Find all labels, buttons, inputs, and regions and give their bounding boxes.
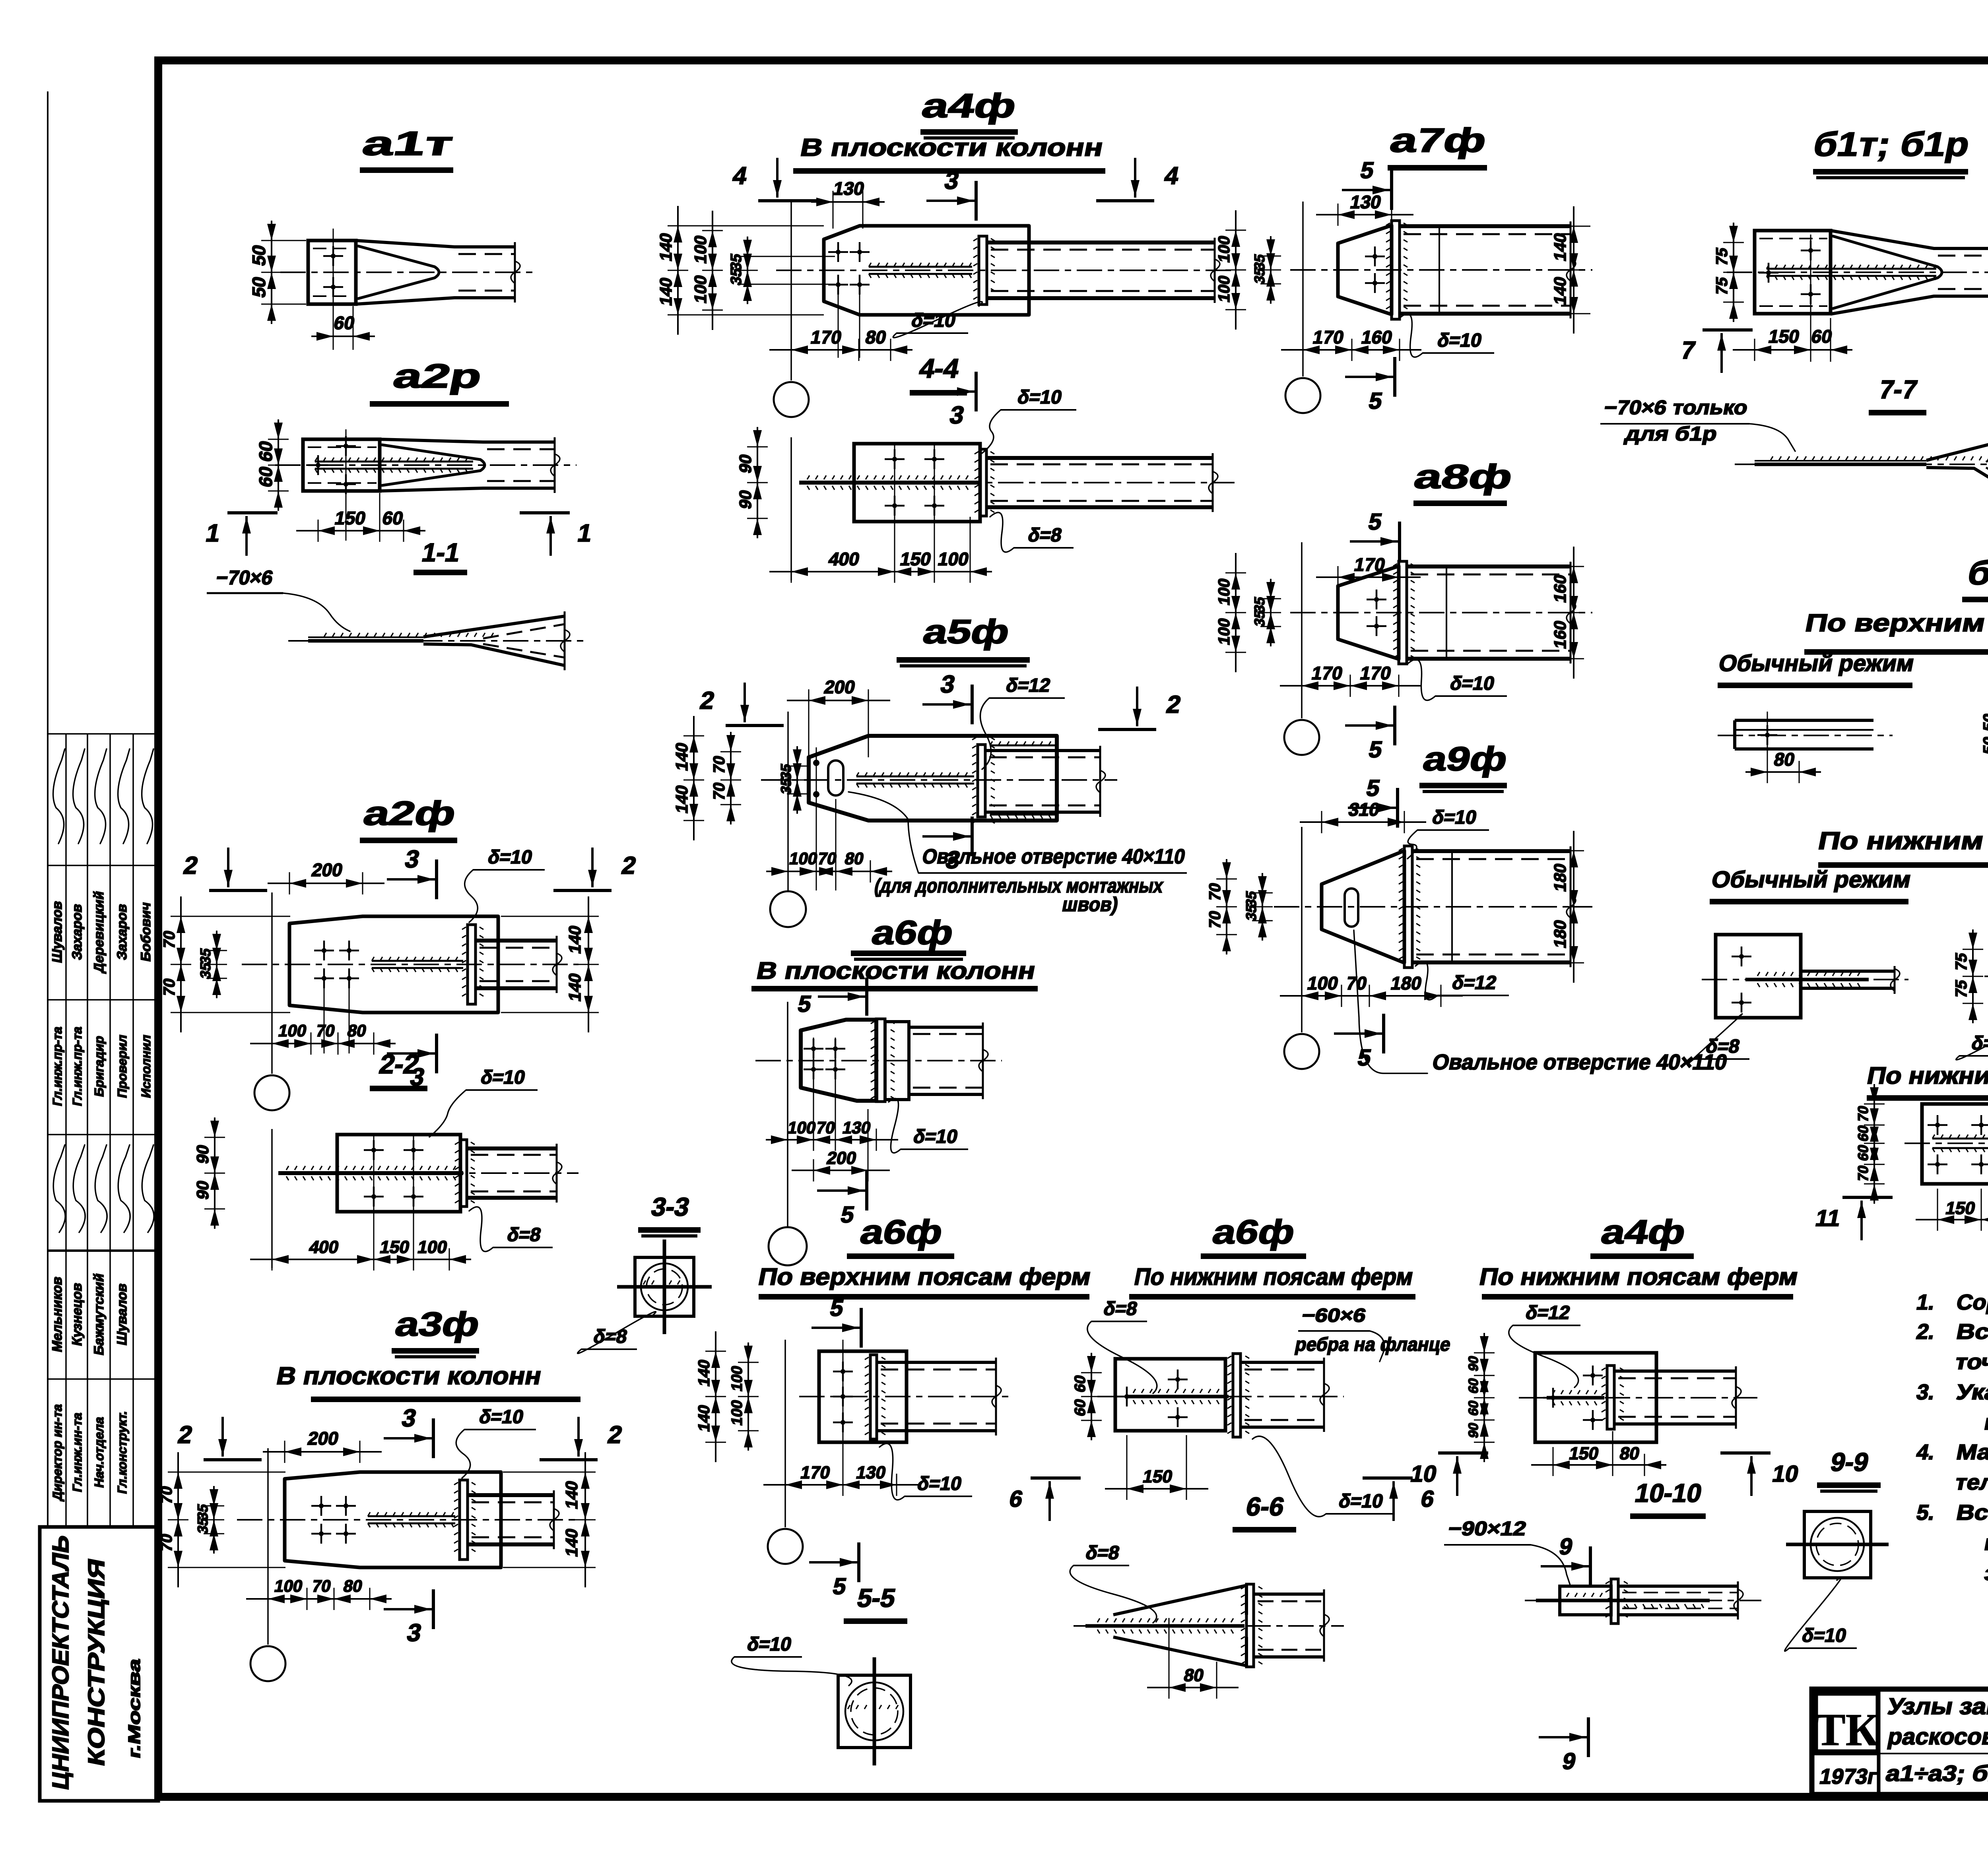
- svg-text:δ=10: δ=10: [912, 1126, 960, 1147]
- svg-text:Шувалов: Шувалов: [115, 1282, 130, 1346]
- svg-text:Бригадир: Бригадир: [92, 1034, 106, 1098]
- svg-text:точности М20.: точности М20.: [1953, 1350, 1988, 1373]
- svg-text:140: 140: [562, 1527, 581, 1558]
- svg-text:для б1р: для б1р: [1623, 422, 1719, 444]
- sidebar organisation box CNIIPROEKTSTAL: [40, 1527, 158, 1801]
- header a3f po nizhnim poyasam ferm: [1865, 1062, 1988, 1098]
- svg-text:100: 100: [1215, 577, 1233, 607]
- detail b1t b1p drawing: [1679, 223, 1988, 373]
- svg-text:−70×6 только: −70×6 только: [1602, 396, 1750, 418]
- svg-text:80: 80: [1182, 1666, 1206, 1685]
- svg-text:90: 90: [736, 452, 755, 475]
- svg-text:(для дополнительных монтажны: (для дополнительных монтажных: [873, 874, 1165, 896]
- svg-text:70: 70: [315, 1021, 337, 1040]
- svg-text:400: 400: [827, 549, 862, 569]
- subheader obychny rezhim 2: [1709, 867, 1913, 902]
- svg-text:δ=10: δ=10: [1337, 1490, 1385, 1511]
- section 10-10 label: [1630, 1479, 1706, 1516]
- svg-text:70: 70: [160, 929, 178, 950]
- detail a7f label: [1387, 122, 1489, 168]
- svg-text:а1т: а1т: [359, 125, 456, 163]
- detail a5f drawing: [672, 671, 1183, 927]
- note -70x6 tolko dlya b1p: [1600, 396, 1795, 451]
- svg-text:10: 10: [1408, 1461, 1439, 1486]
- detail a6f verkhnim drawing: [695, 1295, 1014, 1599]
- detail a6f mid drawing: [755, 978, 1002, 1265]
- svg-text:70: 70: [710, 754, 728, 775]
- svg-text:70: 70: [816, 849, 839, 868]
- section 9-9 label: [1817, 1448, 1881, 1491]
- svg-text:180: 180: [1551, 862, 1569, 893]
- section 2-2 drawing: [193, 1067, 579, 1271]
- detail a7f drawing: [1215, 157, 1592, 413]
- svg-text:δ=10: δ=10: [486, 846, 534, 867]
- section 5-5 label: [844, 1584, 907, 1621]
- section 4-4 label: [910, 353, 967, 393]
- svg-text:а2ф: а2ф: [360, 795, 459, 832]
- detail a1t label: [359, 125, 456, 170]
- detail a1t drawing: [248, 221, 537, 350]
- header a6f po nizhnim poyasam ferm: [1129, 1263, 1416, 1297]
- svg-text:11: 11: [1813, 1205, 1843, 1231]
- svg-text:Гл.инж.пр-та: Гл.инж.пр-та: [50, 1025, 64, 1107]
- svg-text:75: 75: [1712, 246, 1731, 267]
- svg-text:Указания по назначению тип: Указания по назначению типов электродов: [1955, 1380, 1988, 1404]
- detail a2f drawing: [160, 846, 639, 1110]
- svg-text:90: 90: [193, 1143, 212, 1165]
- svg-text:100: 100: [728, 1399, 745, 1427]
- plate note -70x6: [207, 566, 350, 631]
- svg-text:140: 140: [672, 741, 691, 772]
- notes Primechaniya: [1914, 1249, 1988, 1585]
- section 4-4 drawing: [736, 386, 1235, 583]
- svg-text:150: 150: [1767, 326, 1802, 347]
- svg-text:1973г: 1973г: [1817, 1764, 1879, 1788]
- svg-text:100: 100: [416, 1238, 449, 1257]
- svg-text:а8ф: а8ф: [1411, 458, 1516, 496]
- svg-text:Захаров: Захаров: [70, 902, 85, 961]
- subtitle a3f v ploskosti kolonn: [274, 1362, 580, 1399]
- svg-text:75: 75: [1712, 275, 1731, 297]
- svg-text:150: 150: [378, 1238, 411, 1257]
- svg-text:2-2: 2-2: [377, 1049, 422, 1079]
- svg-text:а3ф: а3ф: [392, 1306, 483, 1343]
- svg-text:δ=10: δ=10: [479, 1067, 527, 1088]
- svg-text:Нач.отдела: Нач.отдела: [92, 1415, 106, 1489]
- svg-text:140: 140: [695, 1403, 713, 1434]
- svg-text:100: 100: [728, 1364, 745, 1393]
- svg-text:70: 70: [1206, 881, 1224, 902]
- svg-text:тельной записки.: тельной записки.: [1953, 1470, 1988, 1494]
- svg-text:50: 50: [248, 275, 269, 299]
- svg-text:г.Москва: г.Москва: [125, 1657, 144, 1760]
- svg-text:75: 75: [1952, 978, 1970, 999]
- header po nizhnim poyasam ferm: [1816, 827, 1988, 865]
- svg-text:δ=10: δ=10: [1436, 330, 1484, 351]
- svg-text:180: 180: [1551, 918, 1569, 950]
- section 7-7 drawing: [1735, 435, 1988, 494]
- svg-text:Все отверстия d=23 под бол: Все отверстия d=23 под болты нормальной: [1955, 1319, 1988, 1343]
- svg-text:5-5: 5-5: [855, 1584, 898, 1612]
- svg-text:60: 60: [1072, 1397, 1089, 1418]
- note oval hole a5f: [848, 792, 1187, 916]
- svg-text:Деревицкий: Деревицкий: [91, 890, 107, 974]
- svg-text:60: 60: [255, 439, 276, 463]
- svg-text:Проверил: Проверил: [115, 1033, 129, 1099]
- svg-text:130: 130: [832, 178, 866, 199]
- svg-text:δ=10: δ=10: [916, 1473, 964, 1494]
- svg-text:а1÷а3; б1, б2, в1 и б2 из эл: а1÷а3; б1, б2, в1 и б2 из электросварных…: [1884, 1761, 1988, 1785]
- svg-text:140: 140: [565, 972, 584, 1003]
- svg-text:δ=10: δ=10: [1431, 807, 1479, 828]
- svg-text:Гл.конструкт.: Гл.конструкт.: [115, 1409, 129, 1495]
- svg-text:Все расплющенные концы эле: Все расплющенные концы элементов связей: [1955, 1500, 1988, 1524]
- svg-text:80: 80: [1772, 749, 1796, 770]
- svg-text:200: 200: [306, 1428, 341, 1449]
- svg-text:130: 130: [1349, 192, 1383, 212]
- svg-text:140: 140: [565, 924, 584, 955]
- detail a6f verkhnim label: [847, 1213, 954, 1256]
- svg-text:75: 75: [1952, 951, 1970, 972]
- svg-text:δ=8: δ=8: [1084, 1542, 1121, 1563]
- detail a4f drawing: [656, 158, 1237, 429]
- section 3-3 drawing: [578, 1240, 712, 1354]
- svg-text:δ=12: δ=12: [1450, 972, 1499, 993]
- svg-text:7-7: 7-7: [1877, 375, 1920, 404]
- header a6f po verkhnim poyasam ferm: [756, 1263, 1093, 1297]
- svg-text:150: 150: [1944, 1199, 1977, 1218]
- svg-text:140: 140: [1551, 231, 1569, 263]
- detail a2r label: [370, 357, 509, 404]
- svg-text:Гл.инж.пр-та: Гл.инж.пр-та: [70, 1025, 84, 1107]
- svg-text:швов): швов): [1060, 893, 1120, 915]
- svg-text:10: 10: [1770, 1461, 1801, 1486]
- title block: [1812, 1689, 1988, 1794]
- svg-text:100: 100: [788, 849, 819, 868]
- svg-text:150: 150: [333, 508, 368, 528]
- svg-text:ЦНИИПРОЕКТСТАЛЬ: ЦНИИПРОЕКТСТАЛЬ: [48, 1532, 73, 1792]
- svg-text:−90×12: −90×12: [1446, 1517, 1528, 1539]
- svg-text:−60×6: −60×6: [1300, 1305, 1368, 1326]
- svg-text:δ=10: δ=10: [1016, 386, 1064, 407]
- svg-text:140: 140: [1551, 275, 1569, 306]
- svg-text:−70×6: −70×6: [214, 566, 275, 588]
- svg-text:170: 170: [1311, 327, 1346, 347]
- detail a2f label: [360, 795, 459, 840]
- svg-text:100: 100: [277, 1021, 308, 1040]
- svg-text:170: 170: [1353, 554, 1387, 575]
- svg-text:140: 140: [562, 1479, 581, 1511]
- svg-text:По нижним поясам ферм: По нижним поясам ферм: [1865, 1062, 1988, 1089]
- svg-text:80: 80: [342, 1577, 364, 1595]
- svg-text:160: 160: [1360, 327, 1394, 347]
- svg-text:1-1: 1-1: [419, 538, 462, 567]
- svg-text:200: 200: [825, 1148, 858, 1168]
- detail a8f drawing: [1215, 509, 1592, 762]
- svg-text:Исполнил: Исполнил: [139, 1033, 153, 1099]
- header po verkhnim poyasam ferm: [1803, 609, 1988, 652]
- svg-text:140: 140: [672, 784, 691, 815]
- subtitle a6f v ploskosti kolonn: [751, 957, 1038, 989]
- svg-text:Обычный режим: Обычный режим: [1709, 867, 1913, 892]
- svg-text:80: 80: [864, 327, 888, 347]
- detail a5f label: [897, 613, 1030, 666]
- svg-text:По нижним поясам ферм: По нижним поясам ферм: [1477, 1263, 1800, 1290]
- svg-text:140: 140: [656, 276, 675, 307]
- detail a3f kolonn label: [392, 1306, 483, 1357]
- svg-text:200: 200: [823, 677, 857, 697]
- svg-text:35: 35: [1251, 266, 1268, 285]
- section 6-6 label: [1233, 1492, 1296, 1530]
- svg-text:В плоскости колонн: В плоскости колонн: [754, 957, 1038, 984]
- svg-text:а4ф: а4ф: [919, 87, 1019, 125]
- svg-text:140: 140: [656, 231, 675, 263]
- svg-text:По нижним поясам ферм: По нижним поясам ферм: [1816, 827, 1988, 855]
- svg-text:ребра на фланце: ребра на фланце: [1293, 1334, 1452, 1355]
- svg-text:35: 35: [197, 961, 214, 980]
- svg-text:а7ф: а7ф: [1387, 122, 1489, 159]
- section 10-10 drawing: [1525, 1534, 1761, 1774]
- svg-text:В плоскости колонн: В плоскости колонн: [798, 134, 1105, 161]
- svg-text:6-6: 6-6: [1244, 1492, 1287, 1521]
- detail a9f label: [1419, 740, 1511, 791]
- subheader obychny rezhim 1: [1716, 650, 1916, 685]
- svg-text:60: 60: [1855, 1124, 1871, 1143]
- svg-text:160: 160: [1551, 573, 1569, 604]
- detail a3f nizhnim drawing: [1813, 1084, 1988, 1240]
- svg-text:По верхним поясам ферм: По верхним поясам ферм: [1803, 609, 1988, 637]
- detail a6f mid label: [851, 914, 966, 959]
- svg-text:100: 100: [936, 549, 971, 569]
- svg-text:400: 400: [307, 1238, 340, 1257]
- note -60x6 rebra na flantse: [1293, 1305, 1452, 1362]
- svg-text:70: 70: [311, 1577, 333, 1595]
- note oval hole a9f: [1354, 930, 1729, 1074]
- detail b1 upper heavy drawing: [1980, 692, 1988, 810]
- svg-text:Гл.инж.ин-та: Гл.инж.ин-та: [70, 1411, 84, 1493]
- detail a2r drawing: [204, 419, 594, 556]
- detail a8f label: [1411, 458, 1516, 503]
- svg-text:Шувалов: Шувалов: [50, 900, 65, 964]
- svg-text:60: 60: [1466, 1377, 1481, 1395]
- svg-text:140: 140: [695, 1358, 713, 1388]
- svg-text:а6ф: а6ф: [857, 1213, 946, 1251]
- detail a6f nizhnim drawing: [1007, 1298, 1437, 1521]
- svg-text:9-9: 9-9: [1828, 1448, 1871, 1476]
- svg-text:δ=10: δ=10: [1448, 673, 1497, 694]
- svg-text:раскосов, растяжек связей по: раскосов, растяжек связей покрытия: [1885, 1724, 1988, 1749]
- svg-text:Бажмутский: Бажмутский: [91, 1272, 107, 1357]
- detail a9f drawing: [1206, 775, 1592, 1070]
- detail b1 lower normal drawing: [1689, 935, 1908, 1063]
- svg-text:80: 80: [1618, 1444, 1641, 1463]
- svg-text:35: 35: [728, 266, 745, 287]
- svg-text:Обычный режим: Обычный режим: [1716, 650, 1916, 676]
- svg-text:90: 90: [736, 488, 755, 510]
- svg-text:70: 70: [1206, 909, 1224, 930]
- svg-text:170: 170: [1310, 663, 1345, 683]
- svg-text:200: 200: [310, 859, 345, 880]
- svg-text:Захаров: Захаров: [115, 902, 130, 961]
- svg-text:Марки стали указаны в раз: Марки стали указаны в разделе VI поясни-: [1955, 1440, 1988, 1464]
- svg-text:70: 70: [157, 1484, 175, 1505]
- detail a4f nizhnim drawing: [1408, 1302, 1801, 1496]
- svg-text:70: 70: [157, 1532, 175, 1553]
- svg-text:50: 50: [248, 243, 269, 267]
- svg-text:а4ф: а4ф: [1598, 1213, 1689, 1251]
- svg-text:150: 150: [899, 549, 933, 569]
- detail a6f nizhnim label: [1201, 1213, 1306, 1256]
- svg-text:Мельников: Мельников: [50, 1275, 65, 1354]
- section 5-5 drawing: [732, 1633, 911, 1765]
- svg-text:Овальное отверстие 40×110: Овальное отверстие 40×110: [920, 845, 1187, 868]
- svg-text:100: 100: [1215, 617, 1233, 647]
- svg-text:100: 100: [1215, 274, 1233, 304]
- svg-text:δ=8: δ=8: [1102, 1298, 1139, 1319]
- svg-text:δ=8: δ=8: [505, 1224, 543, 1245]
- svg-text:100: 100: [691, 234, 710, 265]
- svg-text:В плоскости колонн: В плоскости колонн: [274, 1362, 544, 1390]
- svg-text:70: 70: [1855, 1164, 1871, 1183]
- svg-text:Кузнецов: Кузнецов: [70, 1281, 85, 1347]
- svg-text:160: 160: [1551, 619, 1569, 650]
- detail a3f kolonn drawing: [157, 1404, 625, 1681]
- svg-text:50: 50: [1980, 712, 1988, 733]
- detail b1t b1p label: [1810, 126, 1972, 178]
- section 3-3 label: [638, 1193, 701, 1236]
- svg-text:70: 70: [710, 781, 728, 802]
- detail a4f label: [919, 87, 1019, 138]
- svg-text:90: 90: [193, 1179, 212, 1201]
- svg-text:Узлы заводского изготовления: Узлы заводского изготовления распорок,: [1885, 1693, 1988, 1719]
- svg-text:Сортамент элементов связей: Сортамент элементов связей см. лист 46.: [1955, 1290, 1988, 1314]
- svg-text:δ=8: δ=8: [1704, 1036, 1741, 1057]
- svg-text:100: 100: [786, 1118, 817, 1137]
- svg-text:δ=10: δ=10: [478, 1406, 526, 1427]
- svg-text:60: 60: [332, 312, 356, 333]
- svg-text:По нижним поясам ферм: По нижним поясам ферм: [1132, 1263, 1415, 1290]
- svg-text:310: 310: [1347, 799, 1382, 820]
- svg-text:70: 70: [1855, 1104, 1871, 1123]
- svg-text:60: 60: [1809, 326, 1834, 347]
- svg-text:70: 70: [815, 1118, 837, 1137]
- svg-text:60: 60: [1072, 1373, 1089, 1394]
- svg-text:δ=8: δ=8: [1026, 524, 1064, 545]
- svg-text:3-3: 3-3: [649, 1193, 692, 1221]
- svg-text:4-4: 4-4: [917, 353, 962, 384]
- section 9-9 drawing: [1785, 1511, 1889, 1651]
- svg-text:170: 170: [1359, 663, 1393, 683]
- svg-text:80: 80: [843, 849, 866, 868]
- svg-text:35: 35: [1243, 903, 1259, 922]
- group b1 header: [1962, 554, 1988, 599]
- svg-text:50: 50: [1980, 735, 1988, 756]
- detail a4f nizhnim label: [1590, 1213, 1694, 1256]
- detail b1 lower heavy drawing: [1952, 929, 1988, 1060]
- svg-text:100: 100: [1215, 234, 1233, 264]
- subtitle V ploskosti kolonn: [793, 134, 1106, 171]
- svg-text:а2р: а2р: [390, 357, 485, 395]
- svg-text:Бобович: Бобович: [138, 901, 153, 963]
- svg-text:Овальное отверстие 40×110: Овальное отверстие 40×110: [1431, 1050, 1730, 1074]
- section 1-1 drawing: [288, 611, 586, 670]
- svg-text:а6ф: а6ф: [1209, 1213, 1298, 1251]
- svg-text:δ=12: δ=12: [1524, 1302, 1572, 1323]
- section 6-6 drawing: [1070, 1542, 1344, 1699]
- section 2-2 label: [370, 1049, 427, 1088]
- svg-text:а5ф: а5ф: [920, 613, 1013, 651]
- section 7-7 label: [1869, 375, 1926, 413]
- svg-text:а6ф: а6ф: [869, 914, 957, 952]
- svg-text:60: 60: [1855, 1143, 1871, 1162]
- svg-text:60: 60: [1466, 1399, 1481, 1417]
- svg-text:100: 100: [273, 1577, 304, 1595]
- svg-text:По верхним поясам ферм: По верхним поясам ферм: [756, 1263, 1093, 1290]
- section 1-1 label: [414, 538, 467, 572]
- svg-text:δ=10: δ=10: [745, 1633, 794, 1655]
- svg-text:60: 60: [381, 508, 405, 528]
- svg-text:150: 150: [1141, 1467, 1174, 1486]
- svg-text:180: 180: [1389, 973, 1424, 993]
- note -90x12: [1444, 1517, 1571, 1586]
- svg-text:100: 100: [1306, 973, 1340, 993]
- svg-text:35: 35: [778, 777, 794, 796]
- svg-text:130: 130: [841, 1118, 872, 1137]
- left sidebar stamp column: [48, 91, 158, 1527]
- svg-text:Директор ин-та: Директор ин-та: [50, 1402, 64, 1501]
- svg-text:100: 100: [691, 274, 710, 305]
- svg-text:90: 90: [1466, 1421, 1481, 1439]
- svg-text:КОНСТРУКЦИЯ: КОНСТРУКЦИЯ: [83, 1556, 109, 1768]
- svg-text:б1т; б1р: б1т; б1р: [1810, 126, 1972, 163]
- svg-text:ТК: ТК: [1815, 1705, 1879, 1755]
- svg-text:170: 170: [799, 1463, 832, 1482]
- svg-text:35: 35: [194, 1516, 211, 1535]
- svg-text:δ=10: δ=10: [1800, 1625, 1848, 1646]
- detail b1 upper normal drawing: [1718, 712, 1893, 783]
- svg-text:130: 130: [854, 1463, 887, 1482]
- svg-text:150: 150: [1567, 1444, 1600, 1463]
- svg-text:δ=12: δ=12: [1004, 675, 1052, 696]
- svg-text:35: 35: [1251, 609, 1268, 628]
- svg-text:а9ф: а9ф: [1420, 740, 1510, 778]
- svg-text:90: 90: [1466, 1354, 1481, 1372]
- svg-text:60: 60: [255, 464, 276, 489]
- svg-text:70: 70: [160, 977, 178, 998]
- header a4f po nizhnim poyasam ferm: [1477, 1263, 1800, 1297]
- svg-text:10-10: 10-10: [1633, 1479, 1704, 1507]
